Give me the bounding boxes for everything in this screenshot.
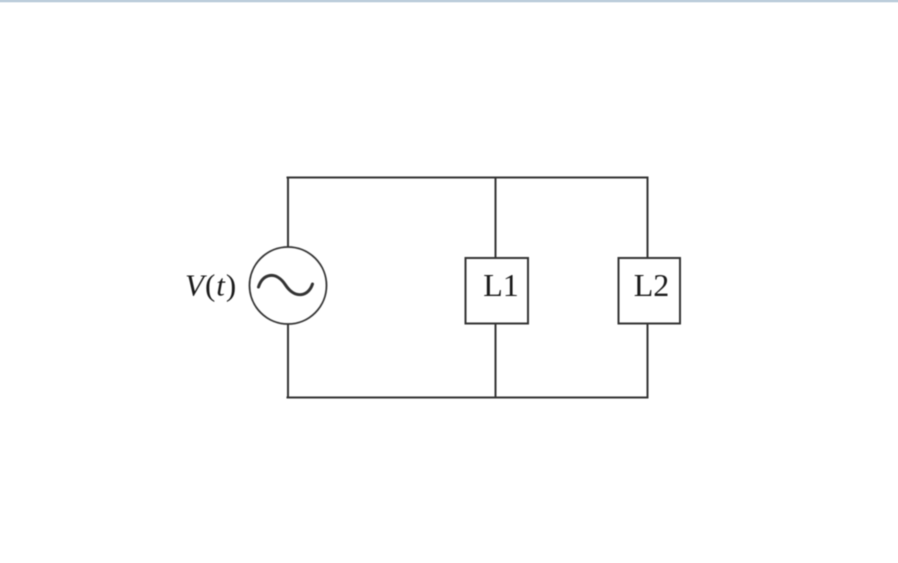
wire top rail (node A) — [287, 177, 649, 179]
wire right branch lower — [647, 323, 649, 399]
wire left branch upper — [287, 177, 289, 248]
wire middle branch lower — [495, 323, 497, 399]
wire bottom rail (node B) — [287, 397, 649, 399]
wire left branch lower — [287, 324, 289, 399]
wire middle branch upper — [495, 177, 497, 260]
AC voltage source V1 circle — [250, 247, 327, 324]
inductor L1 box — [466, 258, 529, 324]
svg-text:L2: L2 — [634, 267, 670, 303]
wire right branch upper — [647, 177, 649, 260]
svg-text:L1: L1 — [483, 267, 519, 303]
inductor L2 box — [619, 258, 681, 324]
svg-text:V(t): V(t) — [185, 268, 237, 303]
AC voltage source V1 sine wave — [259, 275, 313, 294]
